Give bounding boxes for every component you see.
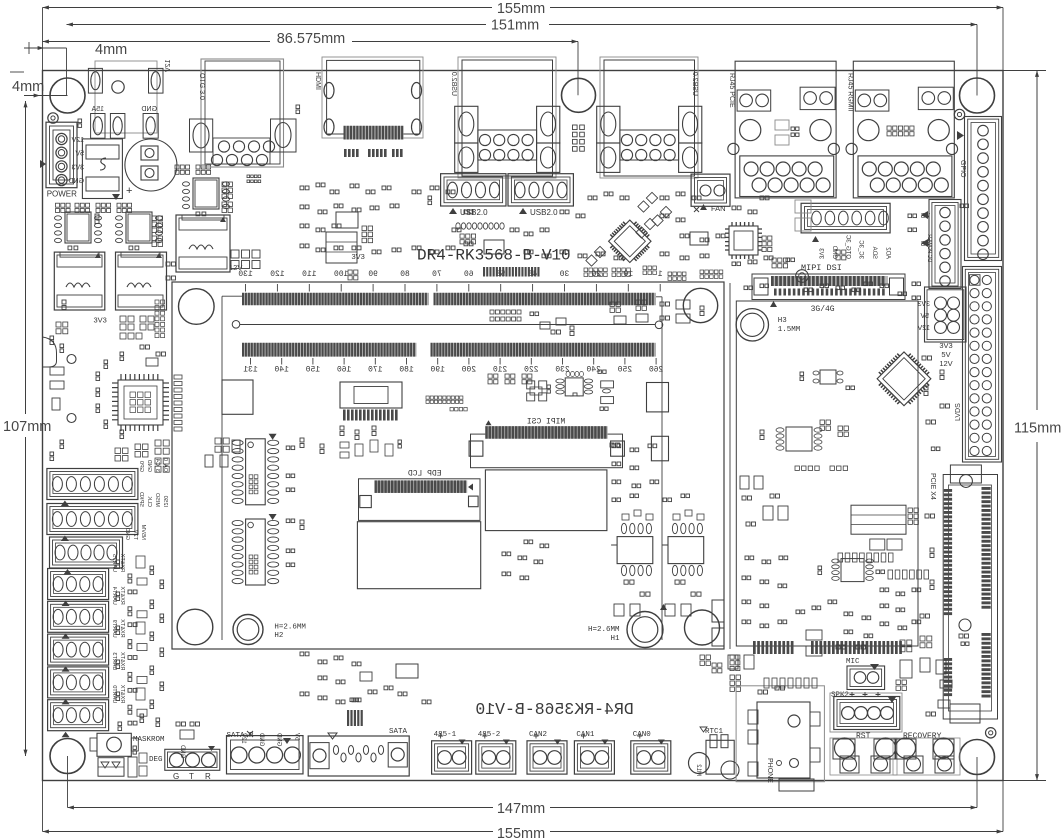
connector SPK (830, 692, 902, 733)
slot PCIE X4 (929, 447, 998, 723)
pad 12V input (88, 60, 172, 94)
svg-text:100: 100 (334, 270, 349, 279)
svg-text:140: 140 (274, 366, 289, 375)
label 3V3 left (94, 316, 107, 325)
passives left column mid (50, 336, 124, 461)
svg-text:86.575mm: 86.575mm (277, 31, 346, 47)
mounting hole top-right (960, 78, 995, 113)
connector USB3.0 stack B (597, 57, 702, 178)
connector USB2.0 header A2 (508, 174, 573, 217)
svg-text:80: 80 (400, 270, 410, 279)
svg-text:220: 220 (524, 366, 539, 375)
svg-text:90: 90 (368, 270, 378, 279)
svg-text:3V3: 3V3 (352, 252, 365, 261)
mounting hole H3 (736, 309, 801, 341)
connector HDMI (314, 57, 423, 140)
header GPIO (957, 117, 1002, 261)
passives mid cluster 2 (456, 192, 846, 282)
connector J3 5pin (50, 524, 147, 574)
svg-text:USB2.0: USB2.0 (530, 208, 558, 217)
passives right lower cluster (742, 553, 929, 656)
connector SATA power (227, 731, 304, 774)
QFN U6 (725, 222, 762, 259)
svg-text:147mm: 147mm (497, 801, 545, 817)
passives beside stack (115, 444, 148, 725)
svg-text:1.5MM: 1.5MM (778, 326, 801, 334)
svg-text:30: 30 (560, 270, 570, 279)
svg-text:170: 170 (368, 366, 383, 375)
battery RTC1 (689, 727, 740, 779)
connector J2 6pin (47, 492, 168, 541)
connector OTG 3.0 micro-USB (190, 59, 297, 167)
pads 15A GND (78, 106, 158, 138)
passives below module left (300, 652, 431, 704)
svg-text:GND: GND (179, 744, 185, 758)
header PWR 2x3 (917, 287, 966, 368)
passives audio area (712, 636, 952, 716)
svg-text:107mm: 107mm (3, 419, 51, 435)
svg-text:I2S0: I2S0 (162, 496, 168, 507)
IC U12 SOP8 (662, 494, 704, 616)
svg-text:RECOVERY: RECOVERY (903, 732, 942, 741)
pad array 12V rail (231, 250, 260, 269)
svg-text:CAN0: CAN0 (633, 731, 652, 739)
module corner circle top-left (179, 289, 215, 325)
dimension 151mm (67, 18, 978, 96)
svg-text:3V3: 3V3 (818, 248, 824, 259)
svg-text:GND: GND (146, 460, 152, 472)
SODIMM edge fingers row B (242, 343, 656, 357)
svg-text:CLK: CLK (146, 496, 152, 507)
inductor L1 (54, 252, 105, 310)
IC U9 with pin row (340, 382, 402, 421)
svg-text:15A: 15A (91, 106, 104, 113)
buck IC U4 (175, 165, 233, 216)
svg-text:N5VM: N5VM (140, 524, 146, 540)
svg-text:HDMI: HDMI (314, 72, 321, 90)
svg-text:120: 120 (270, 270, 285, 279)
connector CAN1 (574, 731, 614, 774)
passives 4G area (740, 466, 848, 526)
passives below QFN (155, 438, 240, 472)
svg-text:1: 1 (658, 270, 663, 279)
svg-text:210: 210 (493, 366, 508, 375)
inductor L2 (116, 252, 167, 310)
connector USB2.0 header A1 (441, 174, 506, 217)
svg-text:USB2.0: USB2.0 (450, 72, 457, 96)
svg-text:130: 130 (238, 270, 253, 279)
svg-text:110: 110 (302, 270, 317, 279)
passives near U9 (340, 396, 467, 458)
svg-text:RST: RST (856, 732, 871, 741)
svg-text:H1: H1 (610, 635, 620, 643)
connector 485-2 (476, 731, 516, 774)
svg-text:SATA: SATA (389, 728, 408, 736)
button RECOVERY (893, 732, 960, 775)
dimension 107mm left (3, 101, 51, 756)
svg-text:151mm: 151mm (491, 18, 539, 34)
connector USB3.0 stack A (450, 57, 560, 178)
mounting hole H2 (233, 615, 306, 645)
passives below module right (700, 600, 902, 691)
svg-text:4mm: 4mm (95, 42, 127, 58)
mounting hole bottom-left (50, 739, 85, 774)
mounting hole H1 (588, 612, 663, 648)
svg-text:RJ45 RGMII: RJ45 RGMII (846, 73, 853, 112)
module corner circle top-right (683, 288, 717, 322)
connector MIPI DSI (752, 263, 905, 307)
svg-text:H2: H2 (274, 632, 283, 640)
connector J1 6pin (47, 458, 168, 506)
svg-text:150: 150 (306, 366, 321, 375)
svg-text:POWER: POWER (47, 190, 77, 199)
svg-text:MISO: MISO (154, 492, 160, 507)
svg-text:OTG 3.0: OTG 3.0 (198, 73, 205, 100)
label DR4-RK3568-B-V10 top (417, 247, 571, 265)
QFN U18 (112, 374, 169, 431)
svg-text:3V3: 3V3 (94, 316, 107, 325)
svg-text:T: T (189, 772, 194, 781)
svg-text:GND: GND (141, 106, 157, 113)
IC U17 SOIC8 (818, 559, 885, 582)
connector I2C debug 6pin (795, 200, 891, 259)
passives diamond cluster (586, 192, 672, 266)
passives module top center (488, 310, 539, 384)
jack PHONE (736, 678, 824, 791)
svg-text:70: 70 (432, 270, 442, 279)
fiducial top-right (954, 109, 964, 119)
connector 485-1 (432, 731, 472, 774)
connector SATA data (308, 728, 409, 776)
svg-text:230: 230 (555, 366, 570, 375)
inductor L3 (176, 215, 242, 272)
svg-text:EDP LCD: EDP LCD (408, 470, 442, 479)
svg-text:M12: M12 (695, 764, 701, 776)
fiducial top-left (48, 113, 58, 123)
QFN U13 diagonal (872, 347, 936, 411)
pad row module top right (584, 266, 656, 277)
svg-text:USB2.0: USB2.0 (691, 72, 698, 96)
card notch arc (43, 337, 57, 367)
dimension 155mm bottom (43, 781, 1004, 839)
connector module top small (483, 267, 540, 277)
IC U10 SOIC8 (556, 371, 593, 396)
module keepout right (647, 383, 669, 461)
svg-text:5V: 5V (293, 733, 299, 740)
dimension 147mm bottom (68, 756, 978, 817)
svg-text:+: + (126, 185, 132, 197)
svg-text:260: 260 (649, 366, 664, 375)
connector RJ45 PCIE (728, 61, 840, 198)
connector J6 4pin (48, 619, 125, 672)
svg-text:12V: 12V (240, 733, 246, 744)
pin header 2x4 (573, 125, 585, 151)
connector MIPI CSI (469, 418, 624, 468)
pin numbers row A (238, 270, 663, 292)
svg-text:155mm: 155mm (497, 826, 545, 839)
svg-text:MIPI CSI: MIPI CSI (527, 418, 565, 427)
svg-text:131: 131 (243, 366, 258, 375)
svg-text:12V: 12V (165, 60, 172, 73)
svg-text:GPIO: GPIO (959, 160, 966, 178)
passive cluster power (120, 316, 154, 339)
svg-text:4mm: 4mm (12, 79, 44, 95)
svg-text:MIC: MIC (846, 658, 860, 666)
hole DC (112, 81, 124, 93)
passives above SATA (347, 698, 363, 726)
pads column right of U18 (174, 375, 182, 431)
dimension 4mm left (10, 72, 68, 98)
svg-text:GP0: GP0 (138, 461, 144, 472)
svg-text:115mm: 115mm (1014, 421, 1061, 437)
connector J7 4pin (48, 652, 125, 705)
svg-text:H=2.6MM: H=2.6MM (274, 623, 306, 631)
svg-text:MASKROM: MASKROM (133, 736, 165, 744)
dimension 155mm top (43, 1, 1004, 71)
svg-text:DR4-RK3568-B-V10: DR4-RK3568-B-V10 (475, 700, 633, 719)
connector CAN2 (527, 731, 567, 774)
dimension 86.575mm (43, 31, 579, 95)
svg-text:R: R (205, 772, 211, 781)
mounting hole top-left (50, 78, 85, 113)
fiducial bottom-right (986, 728, 996, 738)
connector MIC (846, 658, 885, 690)
svg-text:12V: 12V (939, 359, 952, 368)
connector CAN0 (631, 731, 671, 774)
board outline (43, 71, 1004, 781)
module corner circle bottom-right (685, 610, 720, 645)
svg-text:SPKD: SPKD (138, 492, 144, 507)
connector J5 4pin (48, 586, 125, 639)
IC U16 block (851, 505, 935, 550)
3G/4G module area (736, 301, 918, 646)
connector EDP LCD (359, 470, 481, 521)
passives right mid cluster (668, 204, 969, 300)
capacitor C1 bulk (125, 139, 177, 197)
pin numbers row B (243, 358, 663, 375)
QFN U5 main (603, 215, 656, 268)
IC U11 SOP8 (611, 494, 667, 616)
svg-text:SDA: SDA (871, 247, 877, 259)
mounting hole mid-top (562, 78, 596, 112)
svg-text:GND: GND (276, 732, 282, 746)
svg-text:T2V: T2V (132, 530, 138, 540)
svg-text:H=2.6MM: H=2.6MM (588, 626, 620, 634)
buck IC U3 (116, 212, 163, 250)
passives right of U10 (598, 370, 614, 410)
diode D1 (82, 139, 122, 200)
connector VSYS 6pin (920, 200, 961, 289)
header LVDS 2x14 (955, 267, 1002, 463)
SODIMM socket outline (222, 296, 663, 640)
connector GTR debug (165, 722, 220, 781)
passives right column (610, 356, 950, 618)
module outline (172, 282, 724, 649)
buck IC U2 (55, 203, 132, 250)
svg-text:CAN2: CAN2 (529, 731, 547, 739)
svg-text:190: 190 (430, 366, 445, 375)
connector J4 4pin (48, 553, 125, 606)
svg-text:60: 60 (464, 270, 474, 279)
connector RJ45 RGMII (846, 61, 958, 198)
svg-text:DEG: DEG (149, 756, 163, 764)
svg-text:5V: 5V (941, 350, 950, 359)
passives left QFN area (50, 262, 176, 423)
svg-text:G: G (173, 772, 179, 781)
connector J8 4pin (48, 685, 125, 738)
button RST (830, 732, 897, 775)
svg-text:H3: H3 (778, 317, 788, 325)
passives under HDMI (247, 105, 432, 205)
passives module bottom left (300, 438, 324, 530)
button MASKROM (90, 733, 165, 756)
passives stack column trail (116, 556, 164, 731)
svg-text:GND: GND (124, 528, 130, 540)
svg-text:180: 180 (399, 366, 414, 375)
label DR4-RK3568-B-V10 bottom mirrored (475, 700, 633, 719)
svg-text:5V: 5V (920, 313, 929, 320)
svg-text:GND: GND (68, 178, 84, 185)
svg-text:200: 200 (462, 366, 477, 375)
svg-text:OA_0: OA_0 (162, 458, 168, 472)
mounting hole bottom-right (960, 740, 995, 775)
dimension 4mm top (24, 42, 127, 96)
dimension 115mm right (1003, 71, 1061, 781)
svg-text:GND: GND (258, 732, 264, 746)
SODIMM edge fingers row A (242, 293, 656, 305)
svg-text:3V3: 3V3 (939, 341, 952, 350)
SOT23 U14 (800, 370, 855, 390)
svg-text:OTG_3C: OTG_3C (844, 234, 850, 259)
DC input courtyard (95, 61, 157, 133)
svg-text:160: 160 (337, 366, 352, 375)
IC U15 SOIC8 (760, 420, 848, 451)
LED DEG cluster (98, 753, 163, 777)
svg-text:485-2: 485-2 (478, 731, 501, 739)
LCD window rect upper (485, 470, 607, 531)
svg-text:LVDS: LVDS (955, 403, 962, 421)
passives module lower mid (502, 444, 659, 580)
passives module top right (540, 300, 704, 336)
svg-text:485-1: 485-1 (434, 731, 457, 739)
svg-text:3_C4: 3_C4 (154, 459, 160, 472)
module keepout left (222, 380, 253, 414)
svg-text:3G/4G: 3G/4G (811, 305, 835, 314)
svg-text:12V: 12V (917, 325, 930, 332)
svg-text:RJ45 PCIE: RJ45 PCIE (728, 73, 735, 108)
svg-text:PCIE X4: PCIE X4 (929, 473, 936, 500)
module socket boundary line (729, 283, 731, 649)
svg-text:3V3: 3V3 (917, 301, 930, 308)
svg-text:FAN: FAN (711, 204, 726, 213)
IC U7 SOIC16 (232, 434, 295, 505)
connector POWER (40, 122, 84, 198)
svg-text:CAN1: CAN1 (576, 731, 595, 739)
svg-text:250: 250 (618, 366, 633, 375)
LCD window rect lower (357, 522, 480, 589)
connector FAN (691, 174, 730, 213)
passives top mid cluster (300, 183, 473, 280)
svg-text:PHONE: PHONE (766, 758, 773, 783)
module corner circle bottom-left (177, 609, 213, 645)
svg-text:155mm: 155mm (497, 1, 545, 17)
passive quad (527, 381, 551, 401)
IC U8 SOIC16 (232, 514, 295, 585)
svg-text:3C_3C: 3C_3C (858, 240, 864, 259)
svg-text:DC-POWER: DC-POWER (926, 234, 932, 262)
svg-text:AD2: AD2 (885, 247, 891, 259)
